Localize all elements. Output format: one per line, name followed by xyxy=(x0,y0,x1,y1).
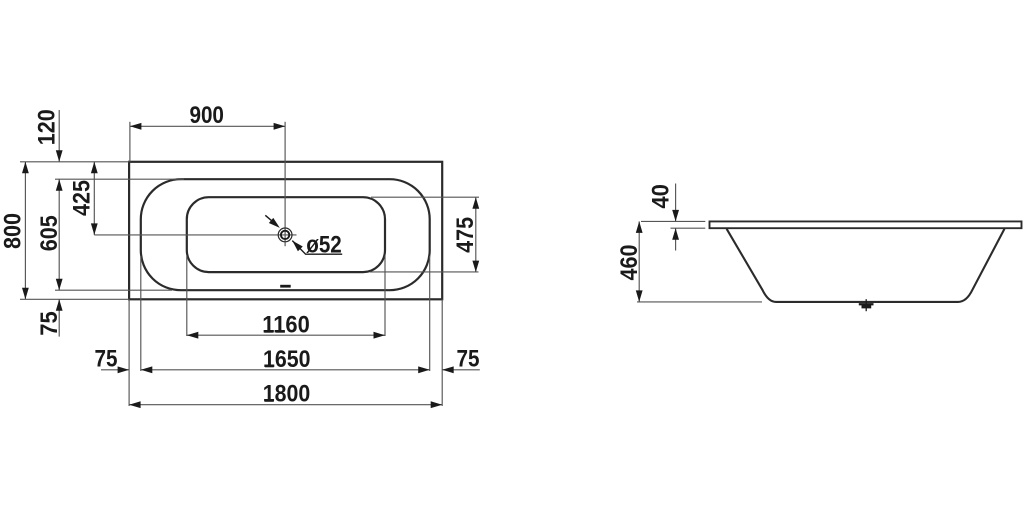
drain tick xyxy=(865,299,867,311)
dimension 605 xyxy=(58,179,60,290)
svg-text:75: 75 xyxy=(95,346,118,373)
drain inner circle xyxy=(281,231,289,239)
extension line rim bottom left xyxy=(55,289,172,291)
svg-text:900: 900 xyxy=(189,102,224,129)
extension line below inner right xyxy=(384,256,386,336)
extension line below inner left xyxy=(186,256,188,336)
svg-text:460: 460 xyxy=(616,245,643,281)
svg-text:425: 425 xyxy=(69,180,96,216)
svg-text:1160: 1160 xyxy=(262,312,310,339)
dimension 1160 xyxy=(187,334,385,336)
rim bar profile xyxy=(710,221,1022,228)
extension line below rim left xyxy=(140,256,142,371)
serif foot for digit 1 in 120 xyxy=(52,135,54,144)
svg-text:800: 800 xyxy=(0,213,27,249)
dimension 120 xyxy=(58,110,60,162)
svg-text:1800: 1800 xyxy=(263,381,311,408)
dimension 75 bottom left xyxy=(101,369,129,371)
extension line tub bottom xyxy=(637,301,762,303)
extension line top edge left xyxy=(20,161,129,163)
drain leader arrow upper-left xyxy=(265,215,276,224)
svg-text:605: 605 xyxy=(36,215,63,251)
svg-text:1650: 1650 xyxy=(263,346,311,373)
drain centerline horizontal xyxy=(94,234,296,236)
extension line inner bottom right xyxy=(370,271,479,273)
tub bottom outline xyxy=(187,197,385,272)
dimension 40 xyxy=(675,184,677,222)
tub outer rectangle xyxy=(129,162,442,299)
dimension 900 xyxy=(130,125,285,127)
dimension 1650 xyxy=(141,369,430,371)
dimension 1800 xyxy=(129,404,442,406)
svg-text:ø52: ø52 xyxy=(306,231,342,258)
extension line below rim right xyxy=(429,256,431,371)
dimension 460 xyxy=(638,221,640,302)
serif feet for digit 1 in 1160 xyxy=(264,330,273,332)
drain trap xyxy=(859,303,874,308)
dimension 800 xyxy=(24,162,26,299)
extension line bottom edge left xyxy=(20,298,129,300)
drain outer circle xyxy=(278,228,292,242)
extension line below outer left corner xyxy=(128,299,130,406)
dimension 425 xyxy=(93,162,95,235)
svg-text:475: 475 xyxy=(452,217,479,253)
svg-text:75: 75 xyxy=(457,346,480,373)
tub rim outline xyxy=(141,179,430,290)
drain centerline vertical xyxy=(284,122,286,246)
dimension 475 xyxy=(475,197,477,272)
dimension 75 bottom right xyxy=(442,369,480,371)
drain leader arrow lower-right with label line xyxy=(292,241,342,255)
dimension 75 left vertical xyxy=(58,299,60,336)
extension line rim top left xyxy=(55,178,184,180)
overflow dash xyxy=(280,285,291,288)
serif foot for digit 1 in 1800 xyxy=(265,400,274,402)
extension line rim top xyxy=(641,220,705,222)
svg-text:120: 120 xyxy=(33,109,60,145)
serif foot for digit 1 in 1650 xyxy=(265,365,274,367)
extension line above left corner xyxy=(129,122,131,162)
extension line below outer right corner xyxy=(441,299,443,406)
svg-text:40: 40 xyxy=(647,184,674,209)
extension line rim bottom xyxy=(671,227,706,229)
svg-text:75: 75 xyxy=(36,311,63,336)
tub body section xyxy=(727,229,1005,302)
extension line inner top right xyxy=(371,196,479,198)
